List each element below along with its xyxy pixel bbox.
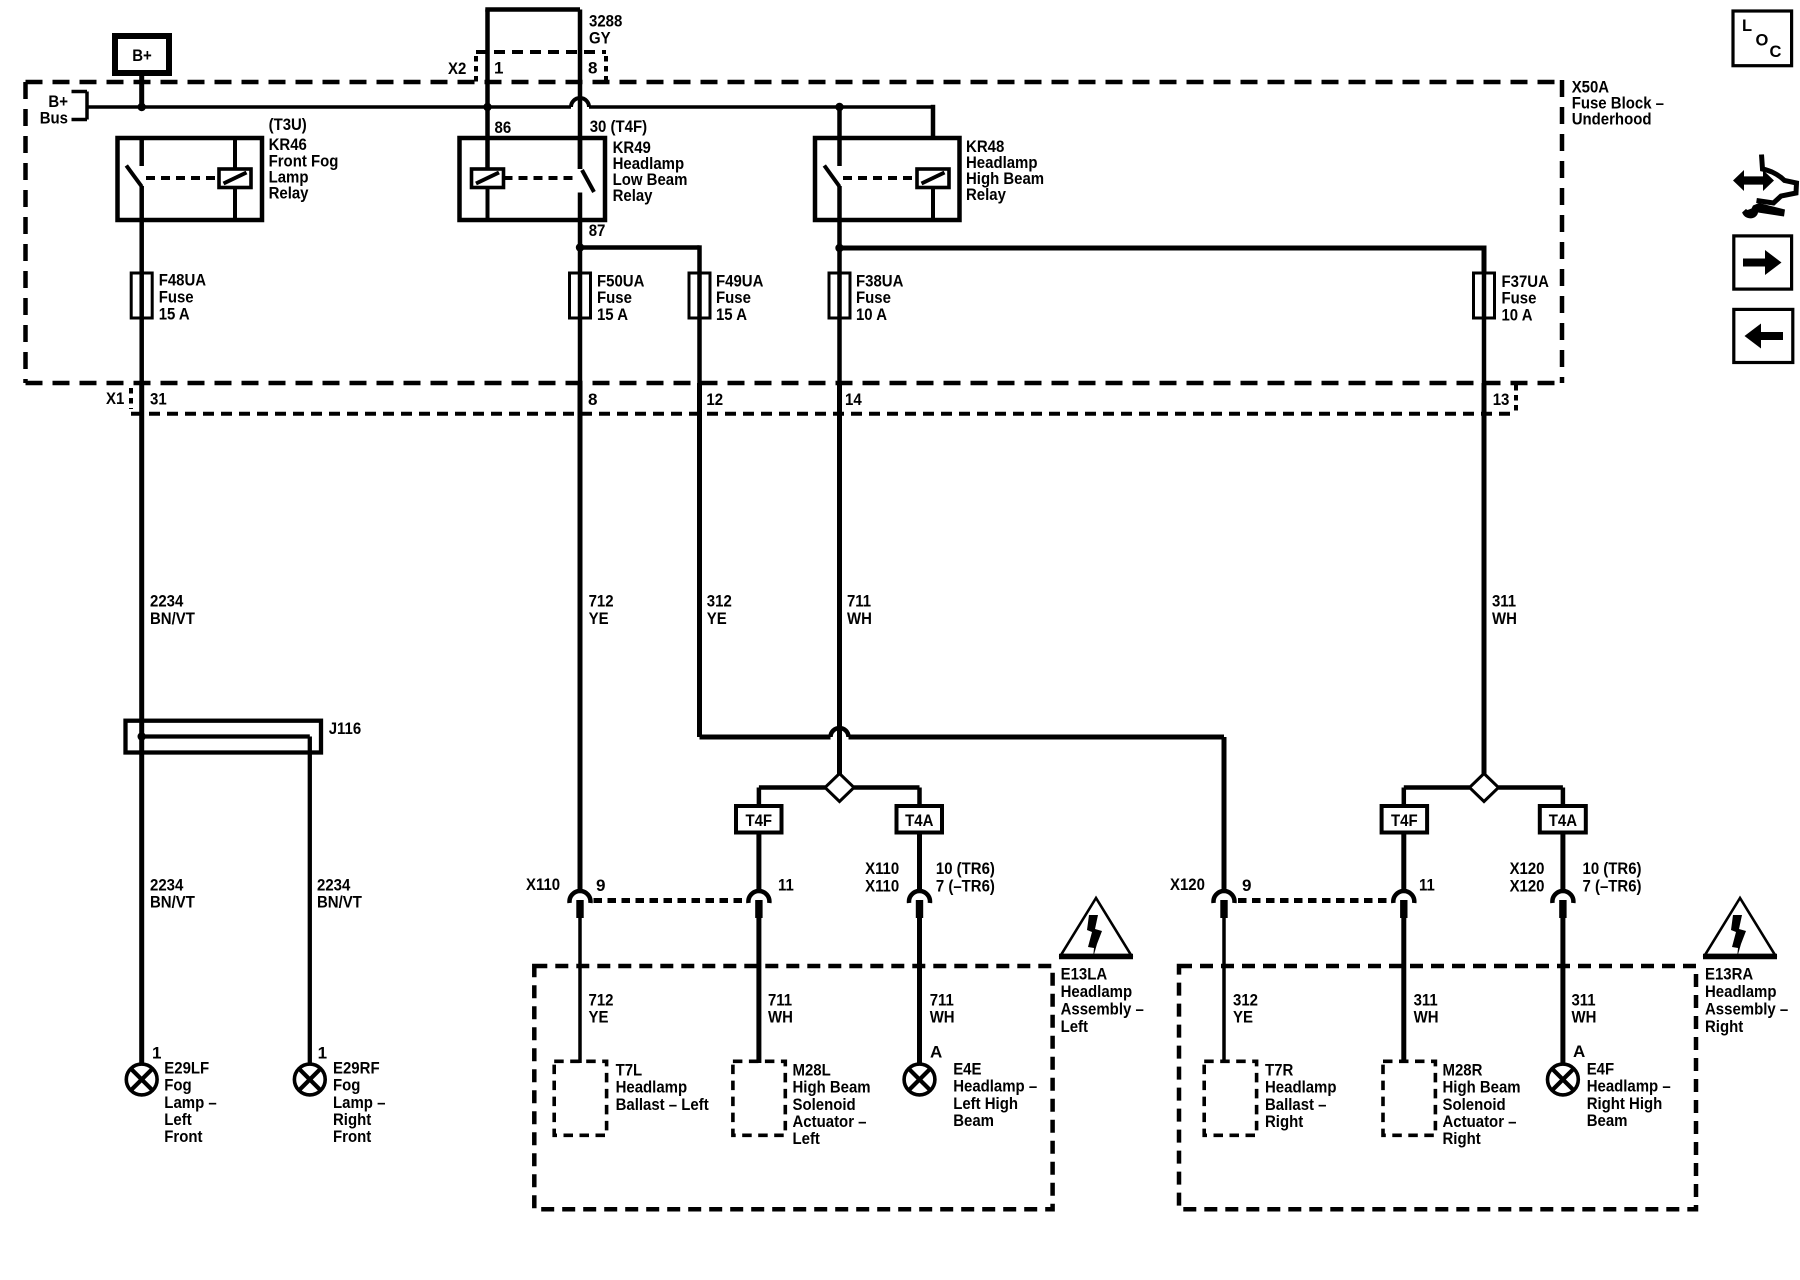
wire 2234 BN/VT left fog leg — [139, 383, 144, 1063]
svg-text:Assembly –: Assembly – — [1705, 999, 1788, 1018]
svg-text:711: 711 — [930, 990, 954, 1009]
svg-text:BN/VT: BN/VT — [150, 893, 195, 912]
fuse F49UA 15 A — [697, 273, 702, 383]
stub 711 WH into M28L — [756, 916, 761, 1063]
headlamp assembly right (E13RA) dashed box — [1179, 966, 1696, 1209]
svg-text:Solenoid: Solenoid — [793, 1095, 856, 1114]
svg-text:Headlamp: Headlamp — [1705, 982, 1777, 1001]
svg-text:T4F: T4F — [1391, 811, 1418, 830]
junction node bus/KR48-30 — [835, 103, 843, 111]
svg-text:High Beam: High Beam — [1443, 1078, 1521, 1097]
svg-text:J116: J116 — [329, 719, 362, 738]
wire 312 YE right ballast feed leg — [697, 383, 702, 737]
svg-text:711: 711 — [847, 592, 871, 611]
svg-text:E29LF: E29LF — [164, 1058, 209, 1077]
svg-text:10 (TR6): 10 (TR6) — [936, 859, 995, 878]
headlamp assembly left (E13LA) dashed box — [534, 966, 1052, 1209]
tag T4F left — [736, 806, 782, 833]
ballast T7R dashed box — [1204, 1061, 1256, 1135]
svg-text:WH: WH — [930, 1008, 955, 1027]
svg-text:15 A: 15 A — [597, 305, 628, 324]
svg-text:WH: WH — [768, 1008, 793, 1027]
svg-text:10 A: 10 A — [856, 305, 887, 324]
svg-text:WH: WH — [1572, 1008, 1597, 1027]
svg-text:711: 711 — [768, 990, 792, 1009]
svg-text:Right: Right — [333, 1110, 371, 1129]
svg-text:YE: YE — [707, 609, 727, 628]
svg-text:Left: Left — [1061, 1017, 1089, 1036]
svg-text:Assembly –: Assembly – — [1061, 999, 1144, 1018]
B+ bus wire — [87, 105, 571, 109]
svg-text:Beam: Beam — [1587, 1111, 1628, 1130]
headlamp E4E Left High Beam — [904, 1064, 935, 1095]
connector X120 tie 9-11 (dashed) — [1238, 898, 1390, 903]
svg-text:M28R: M28R — [1443, 1060, 1483, 1079]
wire KR49-87 feed to fuses F50UA/F49UA — [576, 243, 584, 251]
wire 711 WH high-beam left leg — [837, 383, 842, 774]
svg-text:X120: X120 — [1170, 875, 1205, 894]
branch to T4F left — [759, 785, 825, 790]
svg-text:Ballast –: Ballast – — [1265, 1095, 1327, 1114]
svg-text:13: 13 — [1493, 390, 1510, 409]
stub 311 WH into E4F — [1560, 916, 1565, 1063]
svg-text:2234: 2234 — [317, 875, 351, 894]
wire 311 WH high-beam right leg — [1482, 383, 1487, 774]
svg-text:X120: X120 — [1510, 859, 1545, 878]
svg-text:Actuator –: Actuator – — [1443, 1112, 1517, 1131]
stub 311 WH into M28R — [1401, 916, 1406, 1063]
navigation swap/service icon — [1733, 170, 1774, 191]
junction node B+/KR46 — [138, 103, 146, 111]
svg-text:11: 11 — [1419, 876, 1435, 895]
wire 312 YE horizontal run to X120-9 — [700, 735, 831, 740]
svg-text:Headlamp –: Headlamp – — [953, 1077, 1037, 1096]
svg-text:Beam: Beam — [953, 1111, 994, 1130]
svg-text:YE: YE — [1233, 1008, 1253, 1027]
svg-text:30 (T4F): 30 (T4F) — [590, 117, 647, 136]
warning triangle right — [1705, 898, 1775, 955]
svg-text:31: 31 — [150, 390, 167, 409]
svg-text:Lamp –: Lamp – — [164, 1093, 216, 1112]
svg-text:E4E: E4E — [953, 1059, 981, 1078]
svg-text:BN/VT: BN/VT — [150, 609, 195, 628]
svg-text:YE: YE — [589, 609, 609, 628]
tag T4F right — [1382, 806, 1428, 833]
junction node bus/X2 pin1/KR49-86 — [483, 103, 491, 111]
svg-text:BN/VT: BN/VT — [317, 893, 362, 912]
connector X110 pin 11 — [748, 891, 769, 903]
svg-text:1: 1 — [318, 1043, 327, 1062]
svg-text:A: A — [1573, 1042, 1585, 1061]
svg-text:9: 9 — [1242, 876, 1251, 895]
stub 312 YE into T7R — [1222, 916, 1226, 1063]
connector X110 tie 9-11 (dashed) — [594, 898, 746, 903]
fuse F38UA 10 A — [837, 248, 842, 383]
svg-text:Bus: Bus — [40, 109, 68, 128]
svg-text:GY: GY — [589, 29, 611, 48]
ballast T7L dashed box — [554, 1061, 606, 1135]
branch to T4A left — [854, 785, 920, 790]
svg-text:Solenoid: Solenoid — [1443, 1095, 1506, 1114]
fuse F48UA 15 A — [139, 220, 144, 383]
branch to T4F right — [1404, 785, 1470, 790]
svg-text:Ballast – Left: Ballast – Left — [616, 1095, 709, 1114]
connector X120 pin 11 — [1393, 891, 1414, 903]
splitter diamond left — [825, 774, 854, 802]
svg-text:T7R: T7R — [1265, 1060, 1293, 1079]
splice J116 — [126, 721, 322, 753]
relay KR46 Front Fog Lamp Relay — [118, 138, 263, 220]
forward arrow icon — [1734, 236, 1792, 289]
relay KR48 Headlamp High Beam Relay — [815, 138, 960, 220]
svg-text:L: L — [1742, 17, 1752, 35]
svg-text:Left: Left — [793, 1129, 821, 1148]
bus corner down to KR48 coil 86 — [931, 105, 936, 138]
svg-text:Front: Front — [333, 1127, 371, 1146]
branch to T4A right — [1499, 785, 1563, 790]
actuator M28R dashed box — [1383, 1061, 1435, 1135]
svg-text:Headlamp –: Headlamp – — [1587, 1077, 1671, 1096]
svg-text:T4A: T4A — [1549, 811, 1577, 830]
fuse F50UA 15 A — [578, 248, 583, 383]
svg-text:311: 311 — [1414, 990, 1438, 1009]
svg-text:2234: 2234 — [150, 592, 184, 611]
tag T4A left — [897, 806, 943, 833]
svg-text:2234: 2234 — [150, 875, 184, 894]
svg-text:(T3U): (T3U) — [269, 115, 307, 134]
B+ Bus label and bracket — [85, 92, 89, 120]
back arrow icon — [1734, 309, 1793, 362]
wire KR48-87 feed to fuses F38UA/F37UA — [835, 244, 843, 252]
svg-text:15 A: 15 A — [159, 304, 190, 323]
svg-text:X110: X110 — [526, 875, 560, 894]
wire 712 YE low-beam left leg — [578, 383, 583, 890]
svg-text:Headlamp: Headlamp — [1061, 982, 1133, 1001]
svg-text:Headlamp: Headlamp — [1265, 1078, 1337, 1097]
svg-text:Right: Right — [1443, 1129, 1481, 1148]
fog lamp E29LF — [126, 1064, 157, 1095]
connector X1 row — [131, 412, 1516, 416]
svg-text:Actuator –: Actuator – — [793, 1112, 867, 1131]
stub 711 WH into E4E — [917, 916, 922, 1063]
svg-text:Relay: Relay — [966, 185, 1006, 204]
svg-text:X120: X120 — [1510, 876, 1545, 895]
svg-text:Fog: Fog — [333, 1076, 360, 1095]
tag T4A right — [1540, 806, 1586, 833]
svg-text:7 (–TR6): 7 (–TR6) — [1583, 876, 1642, 895]
svg-text:712: 712 — [589, 990, 614, 1009]
bus hop over X2 pin 8 wire — [571, 98, 589, 107]
svg-text:YE: YE — [589, 1008, 609, 1027]
svg-text:Left High: Left High — [953, 1094, 1018, 1113]
svg-text:87: 87 — [589, 221, 606, 240]
headlamp E4F Right High Beam — [1548, 1064, 1579, 1095]
svg-text:11: 11 — [778, 876, 794, 895]
svg-text:Front: Front — [164, 1127, 202, 1146]
svg-text:A: A — [930, 1042, 942, 1061]
svg-text:Right: Right — [1705, 1017, 1743, 1036]
svg-text:10 (TR6): 10 (TR6) — [1583, 859, 1642, 878]
stub 712 YE into T7L — [578, 916, 582, 1063]
svg-text:8: 8 — [588, 390, 597, 409]
svg-text:8: 8 — [588, 59, 597, 78]
relay KR49 Headlamp Low Beam Relay — [460, 138, 606, 220]
svg-text:86: 86 — [495, 118, 512, 137]
svg-text:12: 12 — [706, 390, 723, 409]
svg-text:312: 312 — [707, 592, 732, 611]
svg-text:Relay: Relay — [269, 184, 309, 203]
svg-text:C: C — [1770, 43, 1782, 61]
actuator M28L dashed box — [733, 1061, 785, 1135]
svg-text:712: 712 — [589, 592, 614, 611]
svg-text:Right High: Right High — [1587, 1094, 1663, 1113]
svg-text:High Beam: High Beam — [793, 1078, 871, 1097]
svg-text:Relay: Relay — [613, 186, 653, 205]
connector X2 jumper loop wire 3288 GY — [485, 10, 490, 108]
svg-text:7 (–TR6): 7 (–TR6) — [936, 876, 995, 895]
svg-text:Headlamp: Headlamp — [616, 1078, 688, 1097]
svg-text:X110: X110 — [865, 876, 899, 895]
svg-text:1: 1 — [494, 59, 503, 78]
B+ power feed symbol — [115, 36, 169, 73]
svg-text:Left: Left — [164, 1110, 192, 1129]
svg-text:311: 311 — [1572, 990, 1596, 1009]
LOC locator icon — [1733, 11, 1792, 66]
X50A fuse block outline (dashed) — [26, 80, 1563, 85]
connector X2 row — [476, 50, 606, 54]
svg-text:Underhood: Underhood — [1572, 110, 1652, 129]
svg-text:T7L: T7L — [616, 1060, 643, 1079]
svg-text:14: 14 — [845, 390, 862, 409]
svg-text:15 A: 15 A — [716, 305, 747, 324]
svg-text:X110: X110 — [865, 859, 899, 878]
svg-text:3288: 3288 — [589, 11, 622, 30]
splitter diamond right — [1470, 774, 1499, 802]
hop over 711 WH wire — [831, 728, 849, 737]
svg-text:T4A: T4A — [905, 811, 933, 830]
svg-text:Fog: Fog — [164, 1076, 191, 1095]
svg-text:Right: Right — [1265, 1112, 1303, 1131]
wire B+ drop to bus — [139, 73, 144, 107]
svg-text:E4F: E4F — [1587, 1059, 1614, 1078]
svg-text:311: 311 — [1492, 592, 1516, 611]
svg-text:WH: WH — [847, 609, 872, 628]
svg-text:1: 1 — [152, 1043, 161, 1062]
svg-text:X1: X1 — [106, 389, 124, 408]
svg-text:9: 9 — [596, 876, 605, 895]
fuse F37UA 10 A — [1482, 273, 1487, 383]
svg-text:312: 312 — [1233, 990, 1258, 1009]
svg-text:X2: X2 — [448, 59, 466, 78]
fog lamp E29RF — [294, 1064, 325, 1095]
svg-text:E13RA: E13RA — [1705, 965, 1753, 984]
svg-text:M28L: M28L — [793, 1060, 831, 1079]
svg-text:E13LA: E13LA — [1061, 965, 1108, 984]
svg-text:10 A: 10 A — [1502, 306, 1533, 325]
svg-text:T4F: T4F — [745, 811, 772, 830]
svg-text:WH: WH — [1492, 609, 1517, 628]
svg-text:Lamp –: Lamp – — [333, 1093, 385, 1112]
warning triangle left — [1061, 898, 1131, 955]
svg-text:B+: B+ — [132, 46, 152, 65]
svg-text:E29RF: E29RF — [333, 1058, 380, 1077]
svg-text:WH: WH — [1414, 1008, 1439, 1027]
svg-text:O: O — [1756, 32, 1769, 50]
